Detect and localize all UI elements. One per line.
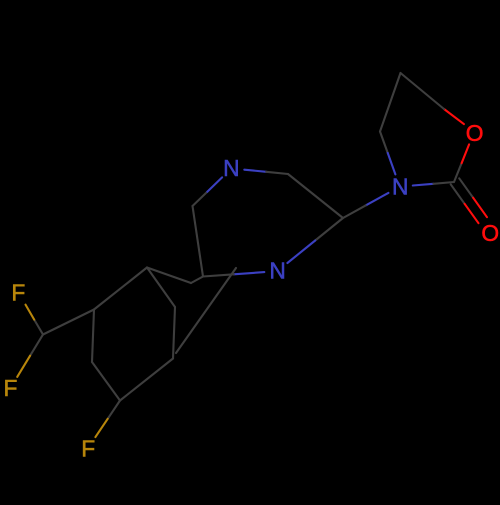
bond N4-P4 — [234, 272, 265, 274]
svg-text:F: F — [81, 436, 95, 462]
bond C2-Oc — [459, 178, 473, 197]
bond P5-N1 — [193, 192, 208, 206]
bond N3-V — [366, 193, 389, 206]
bond R1-CF — [43, 310, 94, 335]
bond P4-P5 — [193, 206, 204, 277]
bond N3-C2 — [413, 184, 434, 186]
bond CF-F2 — [30, 335, 43, 356]
bond R3-R2 — [147, 268, 175, 308]
bond C2-Oc — [451, 184, 465, 204]
svg-text:N: N — [223, 155, 239, 181]
bond V-N4 — [315, 218, 343, 241]
bond RF3-F3 — [108, 401, 120, 419]
bond X1-X2 — [176, 268, 236, 353]
bond N1-P1 — [244, 170, 266, 172]
bond R1-R6 — [92, 310, 94, 363]
bond CF-F1 — [34, 320, 43, 335]
bond apex-C4 — [380, 73, 401, 132]
bond R2-R1 — [94, 268, 147, 310]
bond R2-R3a — [147, 268, 191, 284]
svg-text:N: N — [269, 258, 285, 284]
svg-text:N: N — [392, 174, 408, 200]
bond R4-R3 — [173, 307, 175, 359]
svg-text:O: O — [466, 120, 484, 146]
svg-text:F: F — [11, 280, 25, 306]
svg-text:F: F — [4, 375, 18, 401]
bond C4-N3 — [380, 132, 388, 153]
bond RF3-R4 — [120, 359, 173, 401]
bond R3a-P4 — [191, 277, 203, 284]
bond R6-RF3 — [92, 362, 120, 401]
svg-text:O: O — [481, 220, 499, 246]
bond P1-V — [288, 174, 343, 218]
bond O1-apex — [444, 109, 464, 124]
bond C2-O1 — [454, 163, 462, 182]
